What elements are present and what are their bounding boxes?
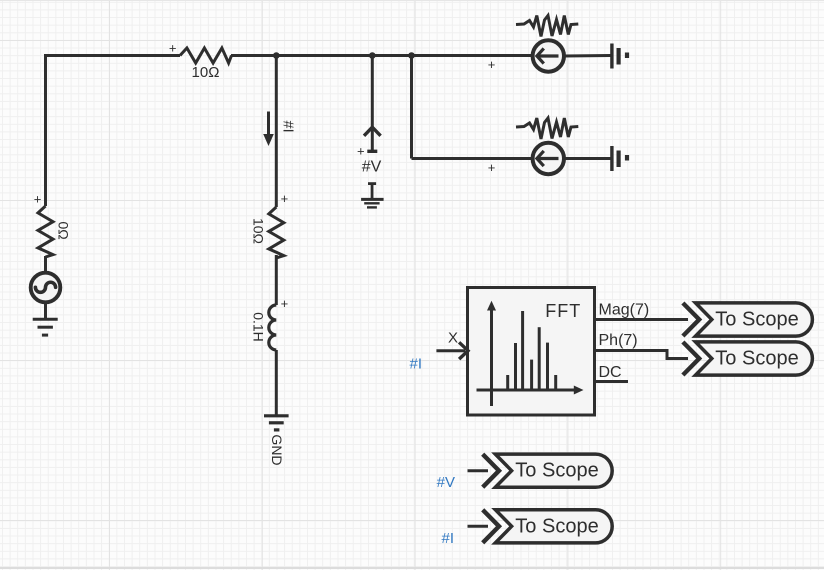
- FFT block box: [468, 288, 595, 416]
- canvas bottom boundary: [0, 567, 824, 569]
- FFT output stub DC: [595, 380, 629, 383]
- svg-text:To Scope: To Scope: [715, 348, 798, 370]
- svg-text:+: +: [281, 296, 289, 311]
- wire mid vertical upper: [275, 56, 278, 208]
- wire left vertical: [44, 56, 47, 207]
- current probe arrow #I: [263, 112, 274, 147]
- resistor R3 10ohm vertical: [269, 207, 284, 258]
- noise squiggle source I1: [516, 16, 578, 37]
- svg-text:+: +: [488, 57, 496, 72]
- ground reference for probe: [361, 184, 384, 208]
- svg-text:#V: #V: [362, 158, 382, 175]
- resistor R2 0ohm vertical: [38, 206, 53, 257]
- noise squiggle source I2: [516, 118, 578, 139]
- FFT vertical axis: [487, 301, 496, 406]
- to-scope flag I body: [495, 510, 612, 543]
- resistor R1 10ohm horizontal: [180, 48, 232, 63]
- FFT spectrum bars: [508, 311, 556, 390]
- wire V1 to ground: [44, 303, 47, 318]
- FFT output wire Ph: [595, 351, 689, 359]
- to-scope flag Ph chevron: [683, 342, 699, 375]
- svg-text:+: +: [281, 191, 289, 206]
- svg-text:+: +: [34, 192, 42, 207]
- to-scope flag V body: [495, 454, 612, 487]
- svg-text:Ph(7): Ph(7): [599, 332, 638, 349]
- FFT input chevron: [459, 342, 468, 359]
- to-scope flag Mag chevron: [683, 303, 699, 336]
- svg-text:0Ω: 0Ω: [55, 221, 71, 239]
- inductor L1 0.1H: [269, 305, 277, 350]
- wire V-probe stub: [371, 56, 374, 151]
- current source I2 circle: [533, 143, 564, 174]
- wire top horizontal left segment: [46, 56, 181, 58]
- battery terminal T2: [612, 146, 627, 171]
- svg-text:DC: DC: [599, 364, 622, 381]
- junction node V-probe: [369, 52, 376, 59]
- junction node right: [408, 52, 415, 59]
- canvas top boundary: [0, 0, 824, 1]
- to-scope flag V chevron: [483, 454, 499, 487]
- current source I1 arrow: [537, 48, 559, 63]
- AC source V1 circle: [31, 273, 61, 303]
- svg-text:FFT: FFT: [545, 301, 581, 321]
- svg-text:+: +: [169, 41, 177, 56]
- wire I1 to battery: [564, 54, 611, 58]
- svg-text:#I: #I: [441, 530, 454, 547]
- svg-text:#V: #V: [437, 474, 455, 491]
- ground under V1: [33, 319, 58, 335]
- to-scope flag Ph body: [696, 342, 813, 375]
- wire right vertical: [410, 56, 413, 159]
- svg-text:0.1H: 0.1H: [250, 312, 266, 342]
- svg-text:To Scope: To Scope: [515, 515, 598, 537]
- current source I2 arrow: [537, 151, 559, 166]
- wire I2 to battery: [564, 157, 611, 160]
- wire to scope I: [468, 525, 489, 528]
- svg-text:#I: #I: [409, 356, 422, 373]
- svg-text:To Scope: To Scope: [515, 460, 598, 482]
- svg-text:+: +: [488, 160, 496, 175]
- svg-text:10Ω: 10Ω: [192, 64, 220, 81]
- FFT horizontal axis: [477, 386, 584, 395]
- AC source V1 sine: [35, 282, 55, 292]
- svg-text:GND: GND: [269, 434, 285, 465]
- wire L1 to GND: [275, 350, 278, 416]
- wire to source I2: [412, 157, 533, 160]
- to-scope flag Mag body: [696, 303, 813, 336]
- wire R2 to V1: [44, 256, 47, 273]
- svg-text:X: X: [448, 330, 458, 347]
- junction node mid: [273, 52, 280, 59]
- FFT input X wire: [436, 349, 465, 352]
- voltage probe #V base bar: [367, 150, 377, 153]
- wire top horizontal right segment: [231, 54, 532, 57]
- ground GND: [264, 416, 289, 430]
- battery terminal T1: [612, 44, 627, 69]
- svg-text:+: +: [357, 143, 365, 158]
- current source I1 circle: [533, 40, 564, 71]
- FFT output wire Mag: [595, 318, 689, 321]
- voltage probe #V arrowhead: [364, 127, 381, 136]
- svg-text:#I: #I: [280, 121, 296, 133]
- to-scope flag I chevron: [483, 510, 499, 543]
- svg-text:Mag(7): Mag(7): [599, 302, 650, 319]
- wire to scope V: [468, 469, 489, 472]
- svg-text:10Ω: 10Ω: [250, 218, 266, 244]
- wire R3 to L1: [275, 255, 278, 305]
- svg-text:To Scope: To Scope: [715, 309, 798, 331]
